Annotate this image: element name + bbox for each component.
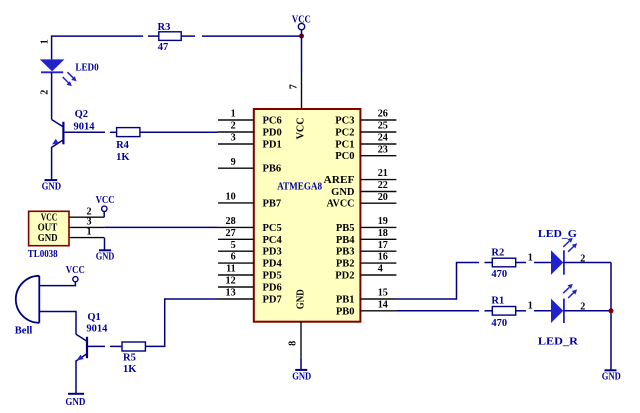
wire pin 14 PB0 to R1 xyxy=(396,310,492,312)
svg-text:PC3: PC3 xyxy=(335,116,354,127)
pin 3 stub of U2 xyxy=(69,217,104,228)
ground GND (right rail) xyxy=(602,370,621,382)
svg-text:PB4: PB4 xyxy=(336,235,355,246)
wire LED_R cathode to right rail xyxy=(564,310,611,312)
power VCC (above Bell) xyxy=(66,265,85,282)
svg-text:9014: 9014 xyxy=(86,324,108,335)
svg-text:GND: GND xyxy=(602,372,621,383)
svg-text:12: 12 xyxy=(226,276,236,287)
LED0 emission arrows xyxy=(63,72,77,86)
svg-text:6: 6 xyxy=(231,252,236,263)
wire OUT to pin 28 PC5 xyxy=(104,226,218,228)
svg-text:GND: GND xyxy=(292,371,311,382)
svg-text:R3: R3 xyxy=(158,22,171,33)
pin 22 stub xyxy=(360,180,396,191)
pin 1 stub of U2 xyxy=(69,227,104,238)
svg-text:22: 22 xyxy=(378,180,388,191)
svg-text:VCC: VCC xyxy=(66,265,85,276)
svg-text:ATMEGA8: ATMEGA8 xyxy=(277,182,322,193)
svg-text:25: 25 xyxy=(378,121,388,132)
svg-text:PD2: PD2 xyxy=(335,271,354,282)
svg-text:PD3: PD3 xyxy=(263,247,282,258)
wire U2 GND pin down xyxy=(104,238,106,250)
pin 10 stub xyxy=(218,192,254,203)
svg-text:470: 470 xyxy=(491,269,507,280)
svg-text:21: 21 xyxy=(378,168,388,179)
wire LED0 cathode to Q2 collector xyxy=(51,72,53,119)
svg-text:PD4: PD4 xyxy=(263,259,283,270)
svg-text:11: 11 xyxy=(226,264,236,275)
wire pin 8 to GND xyxy=(300,358,302,370)
svg-text:2: 2 xyxy=(40,90,51,95)
pin 15 stub xyxy=(360,288,396,299)
wire R2 to LED_G xyxy=(516,262,551,264)
pin 1 stub xyxy=(218,109,254,120)
IC U1 ATMEGA8 body xyxy=(254,109,361,322)
LED_R emission arrows xyxy=(563,284,577,298)
svg-text:PD0: PD0 xyxy=(263,128,282,139)
power VCC (top right) xyxy=(292,14,311,30)
wire Q1 emitter to GND xyxy=(75,360,77,393)
pin 21 stub xyxy=(360,168,396,179)
svg-text:7: 7 xyxy=(289,84,300,89)
svg-text:47: 47 xyxy=(158,42,169,53)
wire Q2 base to R4 xyxy=(63,131,116,133)
node junction at VCC rail xyxy=(299,34,304,39)
pin 13 stub xyxy=(218,288,254,299)
transistor Q1 xyxy=(76,312,108,361)
svg-text:PC5: PC5 xyxy=(263,223,282,234)
svg-text:PB0: PB0 xyxy=(336,306,355,317)
svg-text:LED0: LED0 xyxy=(75,62,98,73)
svg-text:R4: R4 xyxy=(116,140,130,151)
pin 19 stub xyxy=(360,216,396,227)
svg-text:15: 15 xyxy=(378,288,388,299)
svg-text:R5: R5 xyxy=(123,353,136,364)
svg-text:PC1: PC1 xyxy=(335,140,354,151)
ground GND (Q2) xyxy=(42,180,62,193)
resistor R1 xyxy=(491,296,515,329)
svg-text:1: 1 xyxy=(40,39,51,44)
svg-text:TL0038: TL0038 xyxy=(28,249,58,260)
resistor R4 xyxy=(116,128,140,163)
pin 12 stub xyxy=(218,276,254,287)
wire R4 to pin 2 PD0 xyxy=(140,131,218,133)
svg-text:PD1: PD1 xyxy=(263,140,282,151)
pin 25 stub xyxy=(360,121,396,132)
svg-text:1: 1 xyxy=(528,301,533,312)
svg-text:PC0: PC0 xyxy=(335,151,354,162)
svg-text:AVCC: AVCC xyxy=(327,199,355,210)
pin 4 stub xyxy=(360,264,396,275)
svg-text:19: 19 xyxy=(378,216,388,227)
svg-text:9: 9 xyxy=(231,157,236,168)
svg-text:9014: 9014 xyxy=(74,122,96,133)
svg-text:26: 26 xyxy=(378,109,388,120)
svg-text:GND: GND xyxy=(42,182,62,193)
svg-text:8: 8 xyxy=(288,341,299,346)
resistor R5 xyxy=(122,342,145,375)
svg-text:28: 28 xyxy=(226,216,236,227)
pin 17 stub xyxy=(360,240,396,251)
pin 28 stub xyxy=(218,216,254,227)
svg-text:16: 16 xyxy=(378,252,388,263)
pin 18 stub xyxy=(360,228,396,239)
pin 6 stub xyxy=(218,252,254,263)
svg-text:PC4: PC4 xyxy=(263,235,283,246)
LED0 xyxy=(40,39,99,94)
svg-text:VCC: VCC xyxy=(292,14,311,25)
wire R1 to LED_R xyxy=(516,310,551,312)
svg-text:1: 1 xyxy=(87,227,92,238)
svg-text:3: 3 xyxy=(231,133,236,144)
transistor Q2 xyxy=(52,109,96,147)
pin 24 stub xyxy=(360,133,396,144)
buzzer Bell xyxy=(15,276,40,337)
svg-text:AREF: AREF xyxy=(324,175,355,186)
pin 23 stub xyxy=(360,144,396,155)
svg-text:PB2: PB2 xyxy=(336,259,355,270)
svg-text:PB6: PB6 xyxy=(263,164,282,175)
LED LED_G xyxy=(528,229,586,275)
wire VCC top rail from LED0 to VCC xyxy=(52,36,302,59)
pin 7 stub of U1 xyxy=(289,73,302,109)
svg-text:13: 13 xyxy=(226,288,236,299)
svg-text:10: 10 xyxy=(226,192,236,203)
svg-text:24: 24 xyxy=(378,133,388,144)
svg-text:GND: GND xyxy=(38,233,58,244)
wire LED_G cathode to right rail xyxy=(564,262,611,264)
svg-text:1K: 1K xyxy=(116,152,130,163)
power VCC (above TL0038) xyxy=(96,195,115,217)
svg-text:14: 14 xyxy=(378,299,388,310)
svg-text:1: 1 xyxy=(231,109,236,120)
svg-text:R1: R1 xyxy=(491,296,504,307)
ground GND (TL0038) xyxy=(96,250,115,262)
svg-text:PB1: PB1 xyxy=(336,295,355,306)
svg-text:2: 2 xyxy=(231,121,236,132)
svg-text:23: 23 xyxy=(378,144,388,155)
LED LED_R xyxy=(528,299,586,348)
wire R5 to pin 13 PD7 xyxy=(145,299,218,346)
wire VCC to pin 7 xyxy=(301,30,303,73)
svg-text:PD6: PD6 xyxy=(263,283,282,294)
pin 2 stub xyxy=(218,121,254,132)
LED_G emission arrows xyxy=(563,238,577,252)
svg-text:GND: GND xyxy=(96,252,115,263)
node junction LED_R / rail xyxy=(609,308,614,313)
pin 26 stub xyxy=(360,109,396,120)
svg-text:VCC: VCC xyxy=(296,117,307,139)
svg-text:4: 4 xyxy=(378,264,383,275)
svg-text:PC2: PC2 xyxy=(335,128,354,139)
svg-text:20: 20 xyxy=(378,192,388,203)
svg-text:PD5: PD5 xyxy=(263,271,282,282)
svg-text:Q1: Q1 xyxy=(87,312,100,323)
pin 9 stub xyxy=(218,157,254,168)
ground GND (U1 pin 8) xyxy=(292,370,311,382)
svg-text:27: 27 xyxy=(226,228,236,239)
svg-text:PC6: PC6 xyxy=(263,116,282,127)
svg-text:5: 5 xyxy=(231,240,236,251)
wire Bell bottom terminal to Q1 collector xyxy=(39,312,76,335)
pin 8 stub of U1 xyxy=(288,322,302,358)
svg-text:PB3: PB3 xyxy=(336,247,355,258)
wire Q1 base to R5 xyxy=(87,345,122,347)
ground GND (Q1) xyxy=(65,394,85,408)
wire Bell top terminal to VCC xyxy=(39,282,75,285)
svg-text:Bell: Bell xyxy=(15,326,33,337)
svg-text:18: 18 xyxy=(378,228,388,239)
svg-text:Q2: Q2 xyxy=(75,109,88,120)
pin 14 stub xyxy=(360,299,396,310)
svg-text:PB5: PB5 xyxy=(336,223,355,234)
svg-text:GND: GND xyxy=(331,187,355,198)
pin 27 stub xyxy=(218,228,254,239)
svg-text:R2: R2 xyxy=(491,247,504,258)
svg-text:PD7: PD7 xyxy=(263,295,282,306)
svg-text:VCC: VCC xyxy=(96,195,115,206)
wire Q2 emitter to GND xyxy=(51,147,53,180)
pin 16 stub xyxy=(360,252,396,263)
pin 11 stub xyxy=(218,264,254,275)
svg-text:1K: 1K xyxy=(123,364,137,375)
svg-text:470: 470 xyxy=(491,318,507,329)
svg-text:GND: GND xyxy=(65,397,85,408)
svg-text:17: 17 xyxy=(378,240,388,251)
wire pin 15 PB1 to R2 xyxy=(396,263,492,300)
wire right rail down to GND xyxy=(610,263,612,371)
svg-text:LED_R: LED_R xyxy=(538,336,578,347)
svg-text:1: 1 xyxy=(528,252,533,263)
pin 2 stub of U2 xyxy=(69,206,104,217)
IR receiver U2 TL0038 xyxy=(28,211,69,260)
svg-text:PB7: PB7 xyxy=(263,198,282,209)
pin 20 stub xyxy=(360,192,396,203)
pin 3 stub xyxy=(218,133,254,144)
resistor R3 xyxy=(158,22,182,53)
svg-text:GND: GND xyxy=(296,289,307,309)
pin 5 stub xyxy=(218,240,254,251)
resistor R2 xyxy=(491,247,515,280)
